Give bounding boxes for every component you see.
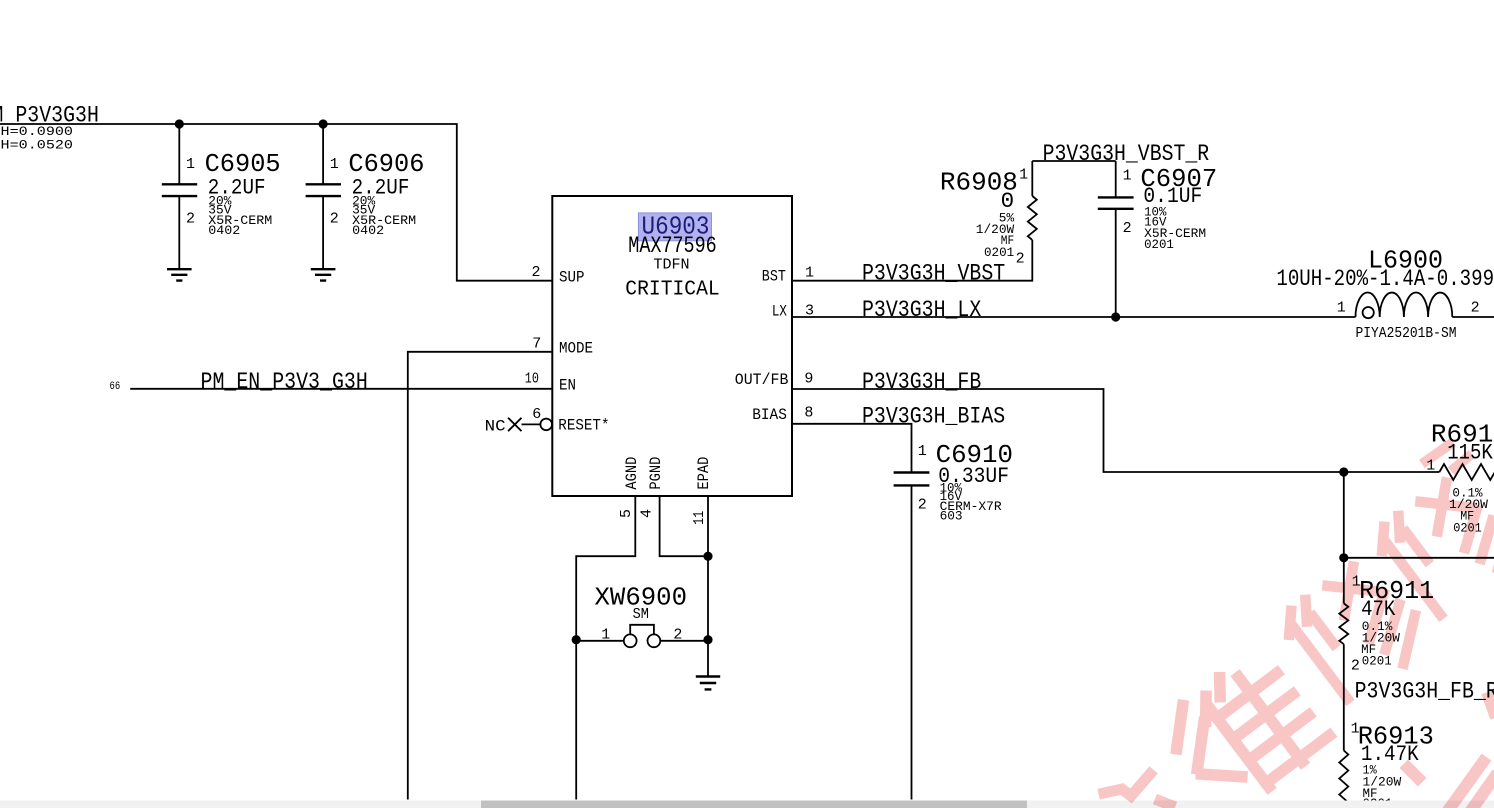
svg-text:CRITICAL: CRITICAL — [625, 278, 719, 301]
svg-text:LX: LX — [772, 303, 787, 321]
svg-text:0201: 0201 — [984, 245, 1014, 260]
junction EPAD / PGND — [703, 552, 712, 561]
svg-text:MODE: MODE — [559, 340, 593, 358]
svg-text:2: 2 — [532, 264, 541, 281]
watermark fragment bottom-left — [1104, 774, 1170, 805]
scrollbar track — [0, 801, 1494, 808]
inductor L6900 — [1276, 245, 1494, 342]
svg-text:2: 2 — [1471, 299, 1480, 316]
svg-text:2: 2 — [1123, 220, 1132, 237]
svg-text:1: 1 — [1019, 166, 1028, 183]
svg-text:RESET*: RESET* — [558, 416, 609, 434]
wire FB to divider — [1344, 472, 1494, 558]
svg-text:TDFN: TDFN — [653, 256, 689, 273]
watermark glyph XIU mid — [1278, 553, 1434, 708]
svg-text:1: 1 — [330, 156, 339, 173]
svg-text:2: 2 — [330, 211, 339, 228]
svg-text:603: 603 — [940, 509, 963, 524]
inverter bubble on RESET* pin 6 — [540, 419, 552, 431]
svg-text:8: 8 — [804, 404, 813, 421]
svg-text:4: 4 — [639, 509, 656, 518]
svg-text:P3V3G3H_FB: P3V3G3H_FB — [862, 369, 981, 395]
svg-text:P3V3G3H_FB_R: P3V3G3H_FB_R — [1355, 678, 1494, 704]
svg-text:SM: SM — [633, 606, 649, 623]
svg-text:EN: EN — [559, 377, 576, 395]
svg-text:2: 2 — [186, 211, 195, 228]
svg-text:P3V3G3H_BIAS: P3V3G3H_BIAS — [862, 404, 1005, 430]
wire P3V3G3H_VBST_R net — [1032, 160, 1115, 162]
svg-text:BST: BST — [762, 267, 786, 285]
svg-text:TH=0.0520: TH=0.0520 — [0, 137, 73, 152]
svg-text:1: 1 — [186, 156, 195, 173]
svg-text:9: 9 — [804, 371, 813, 388]
resistor R6908 — [940, 161, 1037, 268]
wire FB_R net — [1343, 644, 1345, 750]
svg-text:1: 1 — [805, 264, 814, 281]
svg-text:2: 2 — [918, 497, 927, 514]
svg-text:2: 2 — [1351, 657, 1360, 674]
wire BST net — [792, 240, 1032, 281]
watermark fragment top — [1426, 445, 1468, 468]
capacitor C6910 — [894, 440, 1013, 524]
watermark fragment bottom-right — [1408, 698, 1494, 808]
IC U6903 body — [552, 196, 792, 496]
svg-text:EPAD: EPAD — [695, 457, 713, 490]
wire EPAD pin 11 — [707, 496, 709, 677]
svg-text:P3V3G3H_VBST: P3V3G3H_VBST — [862, 261, 1005, 287]
junction FB node — [1339, 467, 1348, 476]
ground under XW6900 — [696, 677, 720, 690]
ground under C6905 — [167, 269, 192, 280]
junction switch pin1 — [572, 635, 581, 644]
wire MODE net — [408, 352, 553, 800]
svg-text:P3V3G3H_LX: P3V3G3H_LX — [862, 297, 981, 323]
svg-text:2: 2 — [673, 626, 682, 643]
watermark — [1104, 445, 1494, 808]
svg-text:0402: 0402 — [352, 223, 384, 238]
capacitor C6907 — [1098, 161, 1217, 317]
junction on rail at C6905 — [175, 119, 184, 128]
junction switch pin2 — [703, 635, 712, 644]
watermark glyph XIU upper — [1371, 469, 1494, 619]
svg-text:5: 5 — [618, 509, 635, 518]
svg-text:6: 6 — [532, 406, 541, 423]
svg-text:7: 7 — [532, 335, 541, 352]
svg-text:SUP: SUP — [559, 268, 585, 286]
scrollbar thumb — [481, 801, 1027, 808]
svg-text:PM_EN_P3V3_G3H: PM_EN_P3V3_G3H — [201, 369, 368, 395]
refdes highlight U6903 — [638, 213, 711, 241]
wire AGND drop — [575, 640, 577, 800]
svg-text:0402: 0402 — [208, 223, 240, 238]
svg-text:66: 66 — [110, 381, 121, 393]
jumper XW6900 — [576, 582, 708, 647]
svg-text:PGND: PGND — [647, 457, 665, 490]
svg-text:11: 11 — [691, 511, 708, 525]
wire PGND pin 4 — [660, 496, 708, 556]
svg-text:1: 1 — [1337, 299, 1346, 316]
resistor R6913 — [1339, 720, 1433, 808]
watermark glyph WEI main — [1158, 646, 1332, 808]
svg-text:AGND: AGND — [623, 457, 641, 490]
ground under C6906 — [311, 269, 336, 280]
svg-text:PIYA25201B-SM: PIYA25201B-SM — [1356, 325, 1457, 342]
svg-text:10: 10 — [525, 371, 539, 388]
wire AGND pin 5 — [576, 496, 635, 640]
wire EN net — [130, 388, 552, 390]
wire LX net — [792, 316, 1494, 318]
junction divider node — [1339, 553, 1348, 562]
no-connect X on RESET* — [508, 418, 540, 431]
junction LX / C6907 — [1111, 312, 1120, 321]
capacitor C6906 — [306, 124, 425, 269]
resistor R6912 — [1426, 420, 1494, 536]
svg-text:NC: NC — [485, 418, 506, 436]
capacitor C6905 — [162, 124, 281, 269]
wire BIAS net — [792, 424, 912, 800]
junction on rail at C6906 — [319, 119, 328, 128]
svg-text:BIAS: BIAS — [752, 406, 787, 424]
svg-text:1: 1 — [918, 443, 927, 460]
resistor R6911 — [1339, 558, 1434, 675]
svg-text:OUT/FB: OUT/FB — [735, 371, 789, 389]
node P3V3G3H rail — [0, 124, 552, 281]
svg-text:1: 1 — [1123, 168, 1132, 185]
svg-text:10UH-20%-1.4A-0.399OHM: 10UH-20%-1.4A-0.399OHM — [1276, 266, 1494, 292]
svg-text:2: 2 — [1016, 251, 1025, 268]
svg-text:0201: 0201 — [1144, 237, 1174, 252]
svg-text:1: 1 — [601, 626, 610, 643]
svg-text:MAX77596: MAX77596 — [628, 233, 716, 259]
svg-text:0201: 0201 — [1362, 654, 1392, 669]
wire OUT/FB net — [792, 389, 1439, 472]
